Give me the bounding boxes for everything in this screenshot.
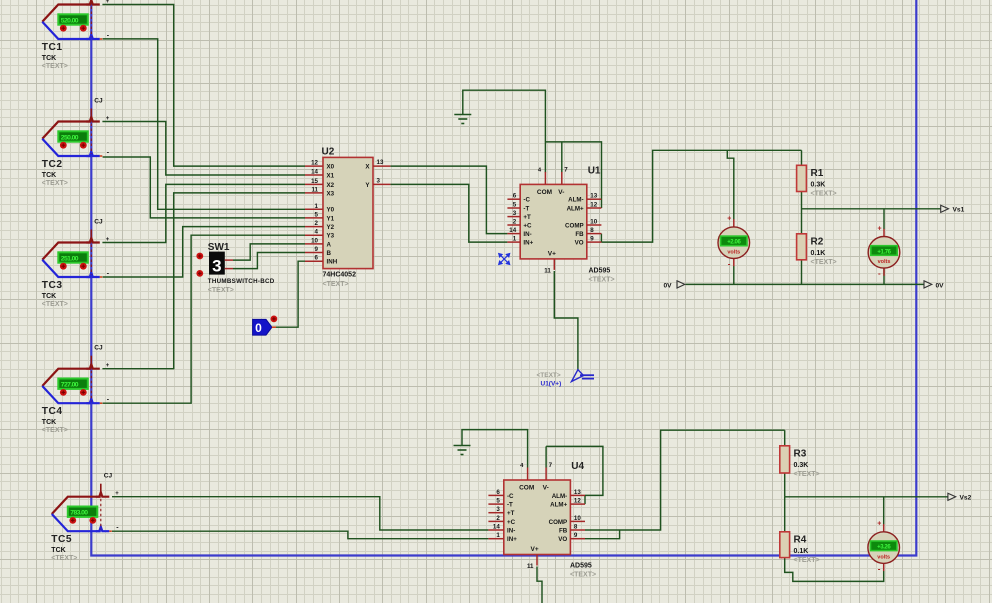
svg-text:9: 9 xyxy=(315,246,319,253)
svg-text:<TEXT>: <TEXT> xyxy=(42,427,68,434)
svg-text:2: 2 xyxy=(513,219,517,226)
svg-text:ALM+: ALM+ xyxy=(567,205,584,212)
svg-text:volts: volts xyxy=(877,554,890,560)
svg-text:TCK: TCK xyxy=(42,172,56,179)
svg-text:5: 5 xyxy=(496,498,500,505)
svg-text:Y2: Y2 xyxy=(327,224,335,231)
svg-text:TC4: TC4 xyxy=(42,406,63,417)
svg-text:<TEXT>: <TEXT> xyxy=(811,259,837,266)
svg-text:520.00: 520.00 xyxy=(61,17,79,24)
svg-text:TC2: TC2 xyxy=(42,159,63,170)
svg-text:TC1: TC1 xyxy=(42,42,63,53)
svg-text:14: 14 xyxy=(509,227,516,234)
svg-text:-: - xyxy=(728,260,731,269)
svg-text:1: 1 xyxy=(513,236,517,243)
svg-text:8: 8 xyxy=(590,227,594,234)
svg-text:R4: R4 xyxy=(794,534,807,545)
svg-text:<TEXT>: <TEXT> xyxy=(794,557,820,564)
svg-text:R1: R1 xyxy=(811,168,824,179)
svg-text:14: 14 xyxy=(311,169,318,176)
svg-text:14: 14 xyxy=(493,524,500,531)
svg-text:TCK: TCK xyxy=(42,55,56,62)
svg-text:251.00: 251.00 xyxy=(61,255,79,262)
svg-text:V+: V+ xyxy=(548,250,556,257)
svg-text:<TEXT>: <TEXT> xyxy=(42,180,68,187)
svg-text:<TEXT>: <TEXT> xyxy=(42,301,68,308)
svg-text:X2: X2 xyxy=(327,182,335,189)
svg-text:7: 7 xyxy=(549,462,553,469)
svg-text:A: A xyxy=(327,241,332,248)
svg-text:-: - xyxy=(878,269,881,278)
svg-text:10: 10 xyxy=(311,237,318,244)
svg-text:<TEXT>: <TEXT> xyxy=(537,372,561,379)
svg-text:0.1K: 0.1K xyxy=(794,548,809,555)
svg-text:Y0: Y0 xyxy=(327,207,335,214)
svg-text:0.3K: 0.3K xyxy=(811,181,826,188)
svg-text:0V: 0V xyxy=(936,282,945,289)
svg-text:1: 1 xyxy=(496,532,500,539)
svg-text:IN-: IN- xyxy=(507,527,515,534)
svg-text:13: 13 xyxy=(590,193,597,200)
svg-text:X1: X1 xyxy=(327,172,335,179)
svg-text:6: 6 xyxy=(315,255,319,262)
svg-text:VO: VO xyxy=(575,240,584,247)
svg-text:13: 13 xyxy=(574,489,581,496)
svg-text:VO: VO xyxy=(558,536,567,543)
svg-text:Vs1: Vs1 xyxy=(953,207,965,214)
svg-text:8: 8 xyxy=(574,524,578,531)
svg-text:5: 5 xyxy=(315,211,319,218)
svg-text:U4: U4 xyxy=(571,461,584,472)
svg-text:THUMBSWITCH-BCD: THUMBSWITCH-BCD xyxy=(208,278,275,285)
svg-text:U1(V+): U1(V+) xyxy=(541,381,562,388)
svg-text:Y3: Y3 xyxy=(327,233,335,240)
svg-text:Vs2: Vs2 xyxy=(960,495,972,502)
svg-text:TCK: TCK xyxy=(42,419,56,426)
svg-text:2: 2 xyxy=(496,515,500,522)
svg-text:volts: volts xyxy=(878,259,891,265)
svg-text:12: 12 xyxy=(311,160,318,167)
svg-text:0V: 0V xyxy=(664,282,673,289)
svg-text:+: + xyxy=(877,521,881,528)
svg-text:COM: COM xyxy=(519,485,534,492)
svg-text:+: + xyxy=(106,237,110,243)
svg-text:COMP: COMP xyxy=(549,519,568,526)
svg-text:3: 3 xyxy=(212,257,221,276)
svg-text:0.3K: 0.3K xyxy=(794,462,809,469)
svg-text:-T: -T xyxy=(523,205,529,212)
svg-text:+T: +T xyxy=(523,214,531,221)
svg-text:6: 6 xyxy=(513,193,517,200)
svg-text:TCK: TCK xyxy=(51,547,65,554)
svg-text:R3: R3 xyxy=(794,448,807,459)
svg-text:<TEXT>: <TEXT> xyxy=(570,572,596,579)
svg-text:0.1K: 0.1K xyxy=(811,250,826,257)
svg-text:ALM-: ALM- xyxy=(568,197,583,204)
svg-text:FB: FB xyxy=(559,527,568,534)
svg-text:+: + xyxy=(106,363,110,369)
svg-text:10: 10 xyxy=(590,219,597,226)
svg-text:CJ: CJ xyxy=(94,98,103,105)
svg-text:+: + xyxy=(106,0,110,5)
svg-text:V-: V- xyxy=(543,485,549,492)
svg-text:<TEXT>: <TEXT> xyxy=(208,287,234,294)
svg-text:74HC4052: 74HC4052 xyxy=(323,272,357,279)
svg-text:12: 12 xyxy=(590,202,597,209)
svg-text:CJ: CJ xyxy=(94,219,103,226)
svg-text:TC3: TC3 xyxy=(42,280,63,291)
svg-text:B: B xyxy=(327,250,332,257)
svg-text:-C: -C xyxy=(523,197,530,204)
svg-text:15: 15 xyxy=(311,178,318,185)
svg-text:AD595: AD595 xyxy=(589,268,611,275)
svg-text:+: + xyxy=(106,116,110,122)
svg-text:2: 2 xyxy=(315,220,319,227)
svg-text:4: 4 xyxy=(315,229,319,236)
svg-text:V-: V- xyxy=(558,189,564,196)
svg-text:0: 0 xyxy=(255,321,262,335)
svg-text:CJ: CJ xyxy=(104,473,113,480)
svg-text:5: 5 xyxy=(513,202,517,209)
svg-text:3: 3 xyxy=(513,210,517,217)
svg-text:+1.76: +1.76 xyxy=(877,249,891,255)
svg-text:Y1: Y1 xyxy=(327,215,335,222)
svg-text:1: 1 xyxy=(315,203,319,210)
svg-text:U1: U1 xyxy=(588,165,601,176)
svg-text:6: 6 xyxy=(496,489,500,496)
svg-text:IN+: IN+ xyxy=(523,240,533,247)
svg-text:IN+: IN+ xyxy=(507,536,517,543)
svg-text:+T: +T xyxy=(507,510,515,517)
svg-text:R2: R2 xyxy=(811,236,824,247)
svg-text:<TEXT>: <TEXT> xyxy=(42,63,68,70)
svg-text:COM: COM xyxy=(537,189,552,196)
svg-text:3: 3 xyxy=(496,506,500,513)
svg-text:TCK: TCK xyxy=(42,293,56,300)
svg-text:727.00: 727.00 xyxy=(61,382,79,389)
svg-text:AD595: AD595 xyxy=(570,563,592,570)
svg-text:V+: V+ xyxy=(531,546,539,553)
svg-text:X0: X0 xyxy=(327,164,335,171)
svg-text:-T: -T xyxy=(507,502,513,509)
svg-text:ALM+: ALM+ xyxy=(550,502,567,509)
svg-text:+: + xyxy=(115,491,119,497)
svg-text:10: 10 xyxy=(574,515,581,522)
svg-text:<TEXT>: <TEXT> xyxy=(794,471,820,478)
svg-text:11: 11 xyxy=(544,267,551,274)
svg-text:INH: INH xyxy=(327,259,338,266)
svg-text:+C: +C xyxy=(507,519,516,526)
svg-text:+: + xyxy=(727,216,731,223)
svg-text:ALM-: ALM- xyxy=(552,493,567,500)
svg-text:CJ: CJ xyxy=(94,345,103,352)
svg-text:TC5: TC5 xyxy=(51,534,72,545)
svg-text:13: 13 xyxy=(377,159,384,166)
svg-text:FB: FB xyxy=(575,231,584,238)
svg-text:+C: +C xyxy=(523,222,532,229)
svg-text:<TEXT>: <TEXT> xyxy=(323,281,349,288)
svg-text:+: + xyxy=(878,225,882,232)
svg-text:COMP: COMP xyxy=(565,222,584,229)
svg-text:-C: -C xyxy=(507,493,514,500)
svg-text:12: 12 xyxy=(574,498,581,505)
svg-text:7: 7 xyxy=(564,166,568,173)
svg-text:11: 11 xyxy=(527,563,534,570)
svg-text:<TEXT>: <TEXT> xyxy=(589,277,615,284)
svg-text:X3: X3 xyxy=(327,190,335,197)
svg-text:783.00: 783.00 xyxy=(70,510,88,517)
svg-text:SW1: SW1 xyxy=(208,242,230,253)
svg-text:+3.26: +3.26 xyxy=(877,545,891,551)
svg-text:+2.06: +2.06 xyxy=(727,240,741,246)
svg-text:9: 9 xyxy=(574,532,578,539)
svg-text:250.00: 250.00 xyxy=(61,134,79,141)
svg-text:<TEXT>: <TEXT> xyxy=(811,190,837,197)
svg-text:9: 9 xyxy=(590,236,594,243)
svg-text:IN-: IN- xyxy=(523,231,531,238)
svg-text:volts: volts xyxy=(727,250,740,256)
svg-text:3: 3 xyxy=(377,177,381,184)
svg-text:U2: U2 xyxy=(322,147,335,158)
svg-text:-: - xyxy=(878,564,881,573)
svg-text:<TEXT>: <TEXT> xyxy=(51,555,77,562)
svg-text:11: 11 xyxy=(311,186,318,193)
